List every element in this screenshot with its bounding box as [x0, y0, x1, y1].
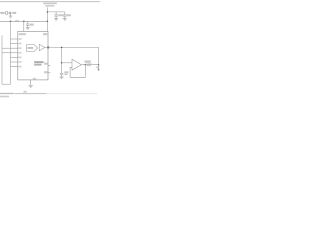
terminal output: [98, 69, 100, 71]
pin DAC0 junction: [47, 46, 49, 48]
wire to output node: [92, 64, 99, 66]
ground: [54, 19, 58, 21]
wire pin rung 6: [11, 61, 18, 63]
wire feedback loop: [70, 65, 85, 78]
label C1 value: [58, 14, 63, 16]
ground: [63, 19, 67, 21]
label MSP430 line1: [34, 61, 43, 63]
ground battery: [9, 13, 12, 18]
ground: [60, 77, 64, 79]
DAC12 block: [27, 45, 38, 52]
label battery text right: [13, 12, 17, 14]
label C3 value: [30, 24, 34, 26]
pin stub right edge B: [48, 72, 50, 74]
label DAC12: [28, 47, 34, 49]
wire to op-amp + input: [62, 62, 72, 64]
node dot rail-V2: [10, 21, 12, 23]
label battery text left: [0, 12, 4, 14]
capacitor C3: [26, 21, 30, 27]
label R1 name: [85, 61, 91, 63]
wire op-amp output: [81, 64, 86, 66]
label pin B: [44, 71, 48, 73]
node label VCC INPUT (two text lines): [43, 3, 57, 7]
label C2 value: [67, 14, 71, 16]
footer page text: [0, 96, 9, 98]
node dot V4 top: [61, 47, 63, 49]
battery BT1 series element box: [6, 12, 8, 15]
wire pin rung 3: [2, 47, 18, 49]
label output net: [96, 66, 99, 68]
node dot output: [98, 64, 100, 66]
node junction dot: [47, 21, 49, 23]
wire pin rung 5: [11, 56, 18, 58]
wire top supply rail: [47, 11, 64, 13]
wire left bus V2: [10, 21, 12, 84]
wire sense line right: [98, 47, 100, 69]
wire pin rung 1: [11, 38, 18, 40]
label pin A: [44, 63, 48, 65]
capacitor C4: [60, 74, 63, 77]
page header rule: [0, 1, 100, 3]
capacitor battery series plates: [10, 12, 11, 15]
wire pin rung 4: [2, 52, 18, 54]
label MSP430 line2: [34, 64, 41, 66]
wire bus bottom link: [2, 83, 11, 85]
op-amp internal buffer: [39, 44, 45, 51]
wire VCC vertical drop: [46, 7, 48, 31]
label op-amp part number: [64, 71, 68, 75]
ground IC bottom: [29, 80, 33, 88]
label DVCC pin text: [43, 33, 47, 35]
wire V4 DAC signal drop: [61, 47, 63, 73]
ground: [26, 28, 30, 30]
node dot output tap: [85, 64, 87, 66]
node dot rail-V3: [23, 21, 25, 23]
footer copyright row: [0, 91, 97, 94]
op-amp U2: [72, 59, 81, 70]
wire pin rung 7: [11, 66, 18, 68]
wire pin rung 2: [11, 43, 18, 45]
wire supply pin drop V3: [23, 21, 25, 31]
wire lower supply rail: [0, 20, 47, 22]
wire left outer bus: [1, 35, 3, 84]
label net name on rail: [15, 20, 19, 21]
label pin names column: [18, 38, 21, 67]
capacitor C2: [63, 12, 67, 19]
capacitor C1: [54, 12, 58, 19]
pin stub right edge A: [48, 64, 50, 66]
node junction dot: [47, 11, 49, 13]
node dot V4 input: [61, 62, 63, 64]
label VSS pin: [33, 78, 36, 80]
wire battery row: [8, 12, 13, 14]
label AVCC pin text: [19, 33, 26, 35]
wire DAC output: [45, 46, 99, 48]
IC U1 MSP430 box: [18, 31, 48, 80]
resistor R1: [85, 64, 92, 66]
